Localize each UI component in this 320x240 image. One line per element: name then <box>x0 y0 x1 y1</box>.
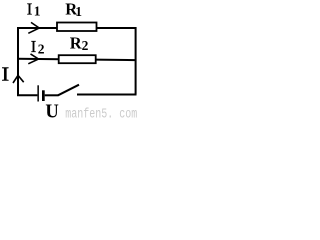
svg-text:U: U <box>45 101 58 119</box>
svg-text:I: I <box>1 63 9 85</box>
svg-text:manfen5. com: manfen5. com <box>65 106 137 119</box>
svg-text:I1: I1 <box>27 0 41 19</box>
